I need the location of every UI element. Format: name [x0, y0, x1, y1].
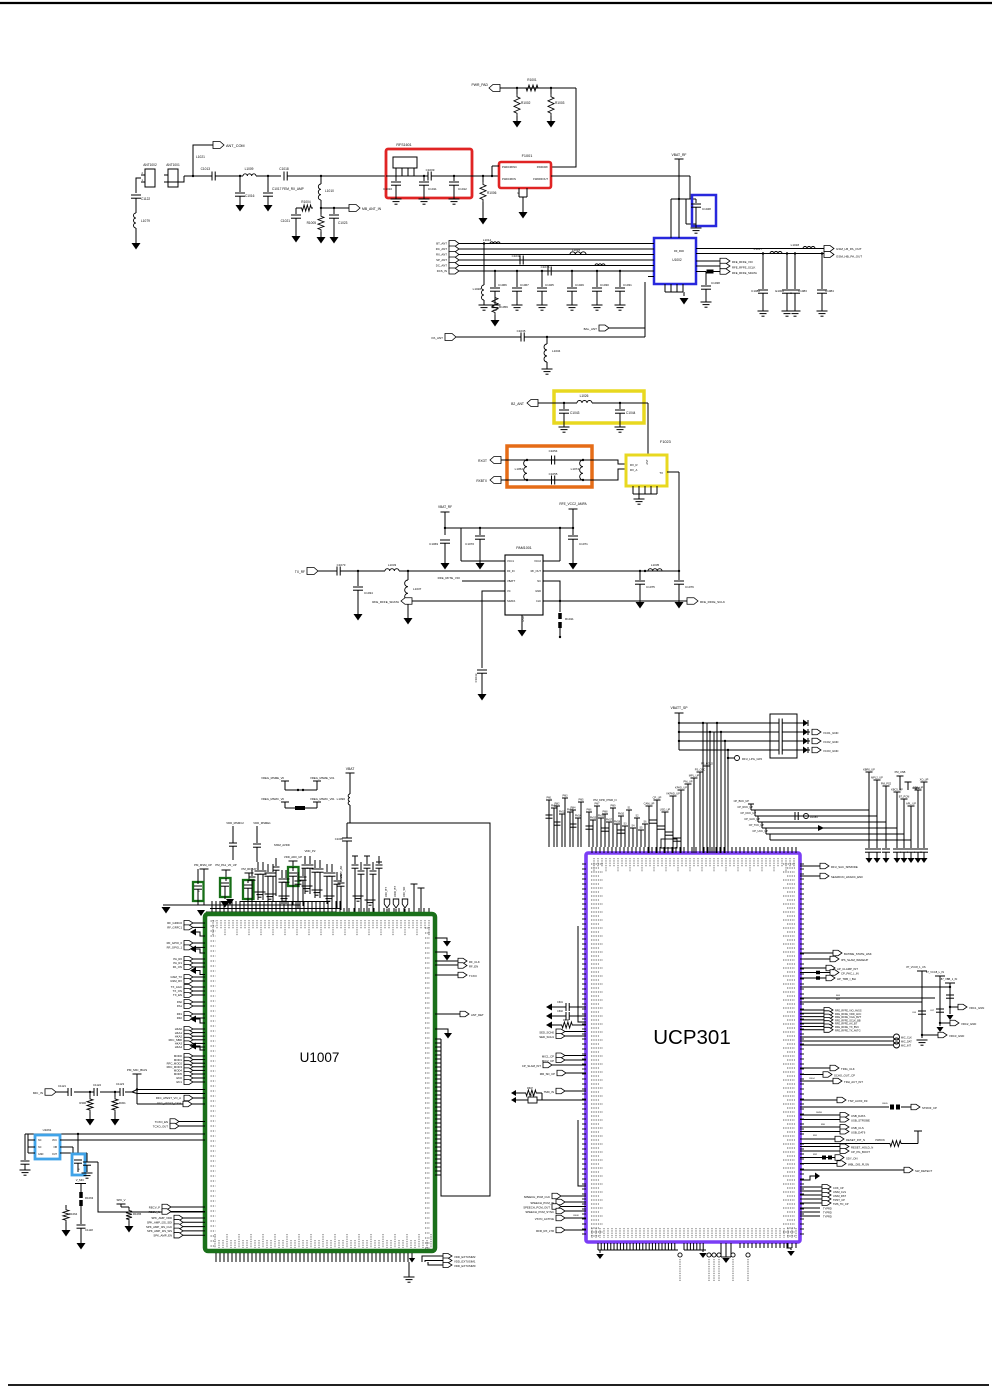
- svg-text:VC: VC: [507, 589, 511, 593]
- svg-text:VBAT: VBAT: [346, 767, 355, 771]
- svg-text:VRC2_GND: VRC2_GND: [961, 1022, 976, 1026]
- svg-text:MR_SD_CP: MR_SD_CP: [540, 1072, 555, 1076]
- F1001 bottom pins: [518, 188, 520, 197]
- svg-text:NB: NB: [54, 1146, 58, 1149]
- ground R1003: [547, 121, 556, 128]
- node RX tap: [320, 207, 322, 209]
- UCP301 bottom pin comb1: [597, 1243, 599, 1250]
- svg-text:S6: S6: [644, 821, 648, 824]
- svg-text:TMS_TD_CP: TMS_TD_CP: [833, 1202, 849, 1206]
- node SED_SCHO pair: [556, 1029, 565, 1034]
- wire UCP301 gnd bracket: [720, 1243, 722, 1257]
- ground F1001: [519, 212, 528, 219]
- highlight box audio IC: [35, 1135, 60, 1159]
- capacitor C1071: [568, 535, 578, 537]
- highlight green box cap2: [220, 878, 231, 897]
- inductor L1015 series: [570, 252, 586, 255]
- svg-text:C1011: C1011: [428, 187, 437, 191]
- resistor R1064: [65, 1205, 67, 1208]
- node RFR_RX connector: [556, 1227, 565, 1233]
- svg-text:C1084: C1084: [825, 289, 834, 293]
- node RF_ATEST connectors: [184, 1095, 193, 1101]
- svg-text:VCO1_GND: VCO1_GND: [823, 731, 838, 735]
- svg-text:L1079: L1079: [141, 219, 150, 223]
- F1023 bottom pins: [632, 486, 634, 494]
- node GSM_LB_PA_OUT connector: [824, 246, 834, 252]
- svg-text:L1009: L1009: [245, 167, 254, 171]
- svg-text:PA1: PA1: [177, 1004, 183, 1008]
- wire MIC bias line: [137, 1103, 183, 1105]
- inductor L_vbat: [348, 794, 350, 805]
- svg-text:CP_PG_BOOT: CP_PG_BOOT: [851, 1150, 870, 1154]
- node RFU_SAC connector: [800, 865, 820, 867]
- svg-text:MIC1_CP: MIC1_CP: [542, 1055, 554, 1059]
- wire VBAT down to chip: [346, 823, 348, 831]
- capacitor stair cap wire: [794, 812, 796, 820]
- svg-text:U1007: U1007: [300, 1050, 340, 1065]
- node RXBTX connector: [490, 477, 501, 484]
- highlight box audio caps: [72, 1154, 85, 1175]
- svg-text:V_MIC: V_MIC: [76, 1178, 85, 1182]
- node RECV connectors: [162, 1204, 171, 1210]
- capacitor C1054: [551, 456, 553, 465]
- node BATIME connector: [800, 952, 833, 954]
- svg-text:PM_KPD_PWR_N: PM_KPD_PWR_N: [593, 798, 616, 802]
- svg-text:PAM1001: PAM1001: [516, 546, 532, 550]
- node VCO1_GND: [797, 731, 810, 733]
- svg-text:B2_ANT: B2_ANT: [511, 402, 524, 406]
- U1007 right pin numbers: [425, 927, 430, 929]
- svg-text:C1066: C1066: [498, 283, 507, 287]
- svg-text:L1033: L1033: [388, 563, 397, 567]
- svg-text:R1004: R1004: [301, 200, 311, 204]
- node VSYN connector: [556, 1215, 565, 1221]
- wire F1001 out right: [551, 175, 690, 177]
- svg-text:RESET_INT_N: RESET_INT_N: [846, 1138, 865, 1142]
- svg-text:TRH_ACT_INT: TRH_ACT_INT: [844, 1080, 863, 1084]
- svg-text:R607: R607: [527, 1087, 533, 1090]
- svg-text:C1075: C1075: [646, 585, 655, 589]
- ground bottom U1007: [408, 1262, 410, 1277]
- svg-text:VRC3_GND: VRC3_GND: [949, 1034, 964, 1038]
- svg-text:MIC_INT: MIC_INT: [901, 1045, 911, 1048]
- resistor R_mic shunt1: [89, 1092, 91, 1097]
- svg-text:NC: NC: [38, 1146, 42, 1149]
- svg-text:PWR_PAD: PWR_PAD: [471, 83, 488, 87]
- resistor R_vmic: [79, 1192, 83, 1198]
- svg-text:C1030: C1030: [600, 283, 609, 287]
- svg-text:RC_ANT: RC_ANT: [436, 247, 447, 251]
- svg-text:VRC1_GNN: VRC1_GNN: [969, 1006, 984, 1010]
- capacitor C1122: [131, 194, 141, 196]
- wire left capwire1: [546, 1004, 552, 1011]
- svg-text:VREG_MSME_V0: VREG_MSME_V0: [261, 776, 284, 780]
- svg-text:SEARFCN_HKADC_EN0: SEARFCN_HKADC_EN0: [831, 875, 863, 879]
- svg-text:SED_SCH0: SED_SCH0: [539, 1031, 554, 1035]
- ground top arrows: [197, 910, 205, 916]
- svg-text:SDATA: SDATA: [507, 599, 516, 603]
- svg-text:MIC_IN: MIC_IN: [33, 1091, 43, 1095]
- node RFE_RFFE_SDATA2 connector: [401, 598, 412, 605]
- svg-text:FEM_RX_AMP: FEM_RX_AMP: [282, 187, 304, 191]
- wire box1 top: [197, 869, 199, 874]
- svg-text:VCC1: VCC1: [507, 559, 514, 563]
- capacitor VREG c3: [946, 994, 954, 996]
- svg-text:PM16: PM16: [598, 815, 605, 818]
- svg-text:VDD_P2: VDD_P2: [305, 849, 316, 853]
- node RFU_LPG connector: [728, 757, 734, 759]
- svg-text:C1054: C1054: [549, 449, 558, 453]
- ferrite bead FB1: [707, 270, 714, 274]
- svg-text:RFE_RFTE_VIO: RFE_RFTE_VIO: [438, 576, 461, 580]
- capacitor C1070: [479, 528, 481, 535]
- capacitor C1043: [563, 403, 565, 409]
- svg-text:SPEECH_PCM_OUT: SPEECH_PCM_OUT: [523, 1206, 550, 1210]
- wire left outer line: [578, 926, 586, 1022]
- svg-text:RESET_HOLD_N: RESET_HOLD_N: [851, 1146, 873, 1150]
- capacitor C1076 shunt: [678, 571, 680, 580]
- wire stair v right: [868, 810, 870, 848]
- svg-text:C1038: C1038: [711, 281, 720, 285]
- svg-text:C602: C602: [557, 1010, 563, 1013]
- UCP301 top pin names: [593, 858, 595, 872]
- svg-text:VIO_BT: VIO_BT: [384, 887, 388, 897]
- ground U1002: [680, 298, 689, 305]
- node USB_DATA pair: [800, 1114, 840, 1116]
- wire VBAT loop rect: [347, 823, 490, 1196]
- svg-text:L1010: L1010: [325, 189, 334, 193]
- svg-text:C1048: C1048: [702, 207, 711, 211]
- svg-text:CP_DCK_UP: CP_DCK_UP: [740, 811, 756, 815]
- svg-text:CP_SLAM_INT: CP_SLAM_INT: [522, 1064, 541, 1068]
- svg-text:R66: R66: [836, 995, 841, 997]
- resistor R1011: [558, 613, 562, 619]
- capacitor C_a2: [83, 1161, 91, 1163]
- capacitor C1031 shunt: [619, 271, 621, 287]
- highlight box C1048: [692, 195, 716, 226]
- U1007 right pin ladder: [435, 1038, 441, 1040]
- svg-text:TRST_CP: TRST_CP: [833, 1198, 845, 1202]
- svg-text:PM7: PM7: [595, 803, 601, 806]
- svg-text:PM_PS2: PM_PS2: [881, 782, 892, 786]
- svg-text:RF_IN: RF_IN: [507, 569, 515, 573]
- inductor L1026 series: [577, 401, 592, 404]
- node BP_PWRG connector: [800, 977, 826, 979]
- UCP301 top pin comb: [591, 847, 593, 853]
- svg-text:Y601: Y601: [529, 1095, 535, 1097]
- capacitor C1009 series: [427, 172, 429, 181]
- resistor R1002: [516, 88, 518, 94]
- svg-text:CP_UP: CP_UP: [653, 796, 662, 800]
- capacitor C1069: [440, 539, 450, 541]
- wire RFS1601 out: [449, 175, 499, 177]
- svg-text:DM90: DM90: [816, 1112, 823, 1114]
- svg-text:PM_PA1_V0_UP: PM_PA1_V0_UP: [215, 863, 236, 867]
- wire C1048 bracket: [679, 198, 696, 200]
- highlight box RFS1601: [386, 149, 472, 198]
- component TMD network2: [511, 1097, 516, 1103]
- svg-text:VDD_MSMC2: VDD_MSMC2: [226, 821, 244, 825]
- svg-text:GND: GND: [38, 1153, 44, 1156]
- svg-text:C67: C67: [930, 1010, 935, 1012]
- svg-text:C: C: [199, 890, 201, 892]
- svg-text:SED_SCH1: SED_SCH1: [539, 1035, 554, 1039]
- svg-text:ANT_DET: ANT_DET: [471, 1013, 484, 1017]
- svg-text:SCHO_OUT_CP: SCHO_OUT_CP: [834, 1074, 855, 1078]
- wire VCC rail: [461, 527, 573, 529]
- svg-text:C1083: C1083: [798, 289, 807, 293]
- capacitor C1038: [705, 272, 707, 286]
- svg-text:PM4: PM4: [571, 807, 577, 810]
- capacitor C1013 series: [211, 172, 213, 181]
- header rule: [0, 2, 992, 4]
- wire RF line down to U1002: [689, 176, 691, 199]
- svg-text:VCO3_GND: VCO3_GND: [823, 749, 838, 753]
- svg-text:1: 1: [670, 234, 672, 236]
- svg-text:U1002: U1002: [672, 258, 682, 262]
- svg-text:C1043: C1043: [570, 411, 580, 415]
- svg-text:CP_GCK_UP: CP_GCK_UP: [744, 817, 760, 821]
- svg-text:G: G: [517, 192, 519, 195]
- arrowhead stair: [818, 825, 824, 831]
- svg-text:APL_UP: APL_UP: [906, 802, 916, 806]
- wire GND pin: [521, 615, 523, 630]
- svg-text:USIM_RST: USIM_RST: [833, 1194, 847, 1198]
- svg-text:FWDCRF: FWDCRF: [537, 165, 549, 169]
- diode VCO d1: [797, 722, 803, 724]
- capacitor C1017 shunt: [267, 176, 269, 192]
- capacitor C1029 shunt: [571, 271, 573, 287]
- svg-text:PWRON: PWRON: [875, 1139, 884, 1142]
- svg-text:C1123: C1123: [116, 1082, 124, 1086]
- node TRIG_CLK connector: [800, 1067, 830, 1069]
- node RF right connectors: [435, 960, 458, 962]
- antenna bus wires: [459, 243, 652, 245]
- wire F1001 in: [492, 165, 499, 167]
- svg-text:VREG_MSMC_V0: VREG_MSMC_V0: [261, 797, 284, 801]
- node MIC pair: [556, 1053, 565, 1058]
- UCP301 bottom pin comb3: [739, 1243, 741, 1248]
- svg-text:CP_RCK_UP: CP_RCK_UP: [737, 805, 753, 809]
- node B2_ANT connector: [527, 400, 538, 407]
- svg-text:SPEECH_PCM_IN: SPEECH_PCM_IN: [530, 1201, 554, 1205]
- svg-text:RECV_N: RECV_N: [149, 1210, 160, 1214]
- svg-text:VBAT_RF: VBAT_RF: [438, 505, 452, 509]
- capacitor cluster right of VBAT: [354, 856, 356, 864]
- svg-text:FWDRFOUT: FWDRFOUT: [533, 177, 548, 181]
- node IPS_SLAM connector: [800, 958, 830, 960]
- capacitor C1033b series: [547, 267, 549, 276]
- highlight green box cap3: [243, 880, 254, 899]
- svg-text:C1118: C1118: [85, 1228, 93, 1232]
- svg-text:L1015: L1015: [572, 248, 581, 252]
- capacitor cluster above U1007: [257, 862, 259, 870]
- resistor R_mic shunt2: [114, 1092, 116, 1097]
- svg-text:C1035: C1035: [517, 329, 526, 333]
- ground UCP301 bottom right: [787, 1243, 791, 1250]
- svg-text:VDD_AD0_UP: VDD_AD0_UP: [284, 855, 302, 859]
- capacitor C1012 shunt: [453, 176, 455, 181]
- net left T group: [546, 799, 552, 801]
- wire NC loop: [543, 581, 560, 612]
- wire VCO lines: [679, 722, 770, 724]
- svg-text:C601: C601: [557, 1001, 563, 1004]
- node WBL_DIS connector: [800, 1163, 837, 1165]
- svg-text:TCXO_OUT: TCXO_OUT: [153, 1125, 169, 1129]
- capacitor C1055: [551, 476, 553, 485]
- svg-text:C1055: C1055: [549, 472, 558, 476]
- wire VBAT_RF2: [444, 512, 446, 535]
- svg-text:PS_OSC: PS_OSC: [695, 768, 706, 772]
- svg-text:VBATT_SP: VBATT_SP: [670, 706, 688, 710]
- IC UCP301 body: [586, 853, 800, 1242]
- svg-text:VREG_MSMC_V01: VREG_MSMC_V01: [310, 797, 335, 801]
- inductor L1074: [580, 460, 583, 480]
- svg-text:HKA4: HKA4: [175, 1045, 183, 1049]
- svg-text:R604: R604: [809, 1078, 815, 1080]
- svg-text:C1122: C1122: [93, 1083, 101, 1087]
- circle UCP301 bottom terminators: [678, 1253, 682, 1257]
- node MR_SD connector: [557, 1070, 566, 1076]
- wire left capwire2: [546, 1013, 552, 1020]
- node TRH_ACT connector: [800, 1080, 833, 1082]
- svg-text:SPK_V: SPK_V: [116, 1198, 125, 1202]
- svg-text:FWDCRFNC: FWDCRFNC: [502, 165, 517, 169]
- resistor R1004: [296, 207, 300, 209]
- antenna ANT1001: [168, 169, 178, 187]
- svg-text:2: 2: [142, 171, 144, 175]
- svg-text:C1017: C1017: [272, 187, 282, 191]
- capacitor VCO c3: [778, 737, 780, 746]
- svg-text:VIO_SD: VIO_SD: [402, 887, 406, 897]
- U1007 left pin numbers: [211, 920, 216, 922]
- wire BT to F1023: [647, 403, 649, 455]
- wire BT line: [538, 402, 564, 404]
- wire link1: [285, 789, 317, 791]
- node U1007 left connectors y943: [184, 941, 193, 946]
- svg-text:U1061: U1061: [43, 1128, 52, 1132]
- svg-text:S2: S2: [636, 815, 640, 818]
- svg-text:1: 1: [142, 178, 144, 182]
- highlight box F1023: [626, 455, 667, 486]
- capacitor C1016 shunt: [239, 176, 241, 192]
- svg-text:PM3: PM3: [563, 795, 569, 798]
- wire bottom out1: [422, 1256, 443, 1262]
- svg-text:C1032: C1032: [512, 254, 521, 258]
- inductor L1018 series: [803, 247, 815, 249]
- ground cluster above U1007: [255, 891, 266, 893]
- ground UCP301 comb2: [702, 1250, 704, 1252]
- svg-text:PM_UP: PM_UP: [684, 780, 693, 784]
- svg-text:PM_RF_UP: PM_RF_UP: [242, 867, 257, 871]
- capacitor C1033 shunt: [477, 669, 487, 671]
- capacitor C_vmic: [77, 1224, 86, 1226]
- highlight box RX match: [507, 446, 592, 487]
- capacitor VCO c2: [778, 728, 780, 737]
- svg-text:87_VCC8_1_US: 87_VCC8_1_US: [906, 965, 925, 969]
- svg-text:PM_MSM_UP: PM_MSM_UP: [194, 863, 212, 867]
- svg-text:USB_DATA: USB_DATA: [851, 1114, 865, 1118]
- capacitor C1025 shunt: [541, 271, 543, 287]
- node U1007 left connectors y1029: [184, 1027, 193, 1032]
- node VCO3_GND: [797, 749, 810, 751]
- svg-text:PM10: PM10: [618, 813, 625, 816]
- wire VBATT_SP stem: [678, 713, 680, 750]
- svg-text:PA_ANT: PA_ANT: [432, 336, 444, 340]
- node MB_ANT_IN connector: [349, 205, 360, 212]
- svg-text:PM1: PM1: [547, 797, 553, 800]
- svg-text:R1006: R1006: [487, 191, 497, 195]
- node RESET_INT connector: [800, 1138, 835, 1140]
- svg-text:TYPRD: TYPRD: [823, 1215, 832, 1219]
- UCP301 bottom pin comb2: [683, 1243, 685, 1250]
- svg-text:S5: S5: [640, 827, 644, 830]
- svg-text:R1059: R1059: [499, 305, 508, 309]
- capacitor in green box3: [247, 880, 249, 883]
- inductor L1016 series: [595, 264, 605, 266]
- U1002 RFFE wires: [696, 260, 720, 262]
- svg-text:USB_CLS: USB_CLS: [851, 1126, 864, 1130]
- antenna bus connectors: [449, 241, 459, 247]
- svg-text:87_VCC8_L_IN: 87_VCC8_L_IN: [926, 970, 944, 974]
- wire VREG rail2: [800, 997, 935, 999]
- svg-text:PM_USB: PM_USB: [895, 770, 906, 774]
- svg-text:RXBTX: RXBTX: [476, 479, 488, 483]
- node VDD bottom connectors: [443, 1254, 452, 1259]
- wire RX to F1023 a: [612, 460, 626, 464]
- svg-text:RFE_RFFE_SDATA: RFE_RFFE_SDATA: [372, 600, 399, 604]
- svg-text:KBC5_UP: KBC5_UP: [891, 788, 903, 792]
- svg-text:ANT1001: ANT1001: [166, 163, 180, 167]
- ground F1023: [634, 498, 645, 500]
- svg-text:L1028: L1028: [473, 287, 482, 291]
- svg-text:KPAD_UP: KPAD_UP: [675, 786, 687, 790]
- svg-text:PA_ON: PA_ON: [173, 965, 182, 969]
- svg-text:CLK: CLK: [536, 599, 541, 603]
- svg-text:USB_STROBE: USB_STROBE: [851, 1119, 870, 1123]
- wire U1007 r2: [435, 952, 447, 955]
- svg-text:GND: GND: [535, 589, 541, 593]
- svg-text:RFE_RFFE_SCLK: RFE_RFFE_SCLK: [732, 266, 755, 270]
- svg-text:I2C1: I2C1: [176, 1080, 182, 1084]
- svg-text:CP_UCK_UP: CP_UCK_UP: [752, 829, 768, 833]
- wire VBAT stem: [349, 773, 351, 794]
- svg-text:BATIME_STATE_HSK: BATIME_STATE_HSK: [844, 952, 872, 956]
- svg-text:USB_DAT6: USB_DAT6: [851, 1131, 866, 1135]
- inductor L1033 series: [385, 569, 399, 571]
- svg-text:PM17: PM17: [606, 819, 613, 822]
- svg-text:CP_BCK_UP: CP_BCK_UP: [734, 799, 750, 803]
- svg-text:VCO2_GND: VCO2_GND: [823, 740, 838, 744]
- IC U1007 body: [205, 914, 435, 1251]
- capacitor C1034 shunt: [357, 571, 359, 586]
- svg-text:R90: R90: [821, 1124, 826, 1126]
- capacitor C_mic2 series: [93, 1088, 95, 1096]
- svg-text:L1018: L1018: [791, 243, 800, 247]
- UCP301 left pin stubs: [582, 863, 586, 865]
- wire gnd rail left: [163, 904, 216, 906]
- svg-text:VDD_MSME1: VDD_MSME1: [253, 821, 271, 825]
- svg-text:SP_ANT: SP_ANT: [436, 258, 447, 262]
- node RFE_RFFE_VIO connector: [720, 258, 730, 264]
- node right conn2: [435, 974, 458, 976]
- wire U1007 r1: [435, 938, 447, 941]
- node RFE_RFFE_SCLK connector: [720, 263, 730, 269]
- audio IC right wires: [60, 1139, 205, 1141]
- wire PWR_PAD rail: [500, 87, 576, 89]
- node VRC2_GND connector: [940, 1022, 950, 1024]
- node MIC_IN connector: [45, 1089, 56, 1096]
